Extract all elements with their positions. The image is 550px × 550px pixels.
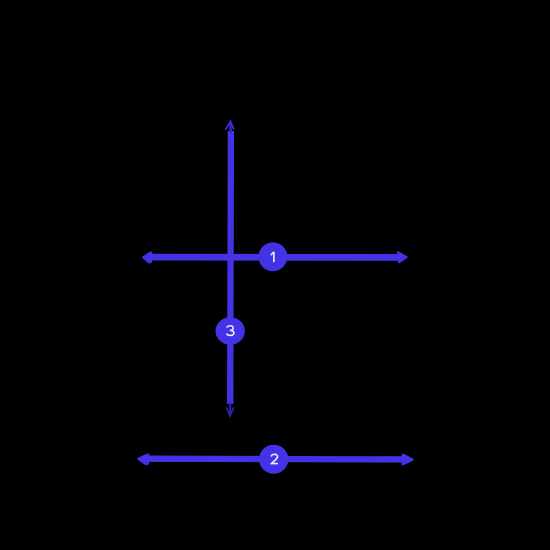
arrowhead: top of vertical arrow <box>226 122 234 134</box>
badge digit 2 <box>271 454 278 463</box>
badge circle 1 <box>258 242 287 271</box>
wire: vertical double-arrow shaft (line 3) <box>227 131 234 404</box>
arrowhead: right of line 2 <box>403 455 413 465</box>
badge circle 2 <box>259 445 288 474</box>
badge circle 3 <box>216 317 245 345</box>
arrowhead: left of line 1 <box>143 253 151 263</box>
badge digit 1 <box>271 252 274 262</box>
arrowhead: bottom of vertical arrow <box>227 403 234 416</box>
wire: horizontal double-arrow shaft (line 1) <box>150 254 400 261</box>
arrowhead: left of line 2 <box>138 455 148 465</box>
arrowhead: right of line 1 <box>398 252 407 262</box>
wire: horizontal double-arrow shaft (line 2) <box>147 456 405 463</box>
badge digit 3 <box>227 326 234 336</box>
